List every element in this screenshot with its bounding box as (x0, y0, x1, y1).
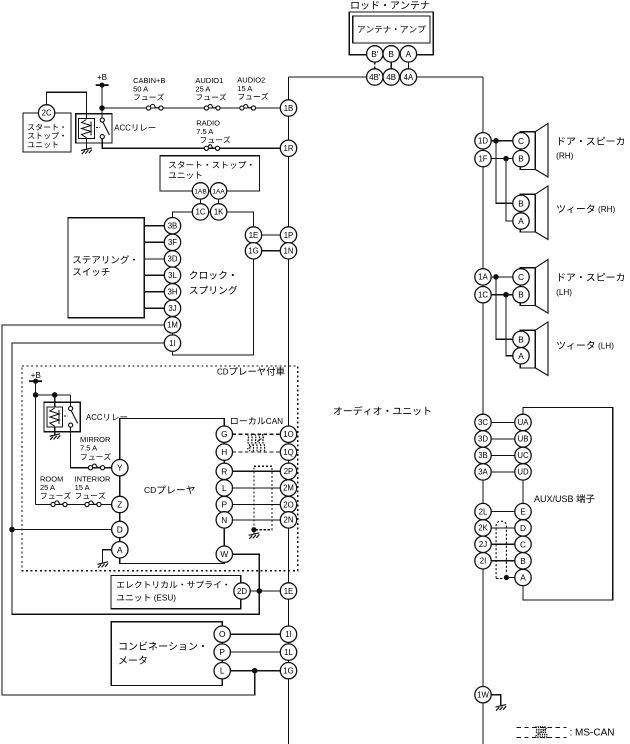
ground ACC relay coil (81, 148, 92, 154)
connector 1I audio unit (280, 626, 296, 642)
svg-text:25 A: 25 A (195, 85, 210, 94)
junction 1C branch (504, 293, 508, 297)
wire 1C to door speaker LH B (491, 294, 513, 296)
connector L combination meter (214, 663, 230, 679)
svg-text:4A: 4A (404, 73, 414, 82)
legend MS-CAN dashed lines (517, 727, 567, 729)
junction shield drain (252, 528, 256, 532)
terminal A tweeter RH (513, 213, 529, 229)
fuse ROOM 25A (51, 502, 55, 506)
wire R to 2P (233, 470, 281, 472)
svg-text:1AA: 1AA (212, 188, 225, 195)
connector 2D ESU (234, 583, 250, 599)
svg-text:3H: 3H (168, 288, 178, 297)
svg-text:CD: CD (217, 367, 229, 376)
terminal E AUX/USB (515, 503, 531, 519)
fuse MIRROR 7.5A (88, 466, 92, 470)
connector P CD player (216, 496, 232, 512)
terminal C door speaker RH (513, 133, 529, 149)
svg-text:Y: Y (117, 463, 123, 473)
wire ACC relay coil to ground (85, 139, 87, 149)
connector 2L audio unit (475, 503, 491, 519)
label antenna amp (358, 25, 426, 33)
svg-text:1AB: 1AB (194, 188, 207, 195)
svg-text:15 A: 15 A (75, 483, 90, 492)
start-stop unit box (left) (23, 113, 71, 152)
svg-text:2D: 2D (237, 587, 247, 596)
svg-text:P: P (222, 500, 228, 510)
connector 2J audio unit (475, 536, 491, 552)
wire antenna A to 4A (407, 62, 409, 69)
svg-text:1G: 1G (248, 247, 258, 256)
wire N to 2N (233, 519, 281, 521)
label combination meter (120, 642, 204, 651)
svg-text:1E: 1E (249, 231, 259, 240)
wire L to 1G (230, 670, 280, 672)
connector 1AA start-stop unit (210, 183, 226, 199)
wire D to left bus junction (12, 529, 112, 531)
terminal UD AUX/USB (515, 464, 531, 480)
svg-text:O: O (219, 629, 226, 639)
wire A to ground (103, 550, 112, 563)
speaker door speaker LH (520, 268, 535, 306)
fuse AUDIO2 15A (240, 106, 244, 110)
label door speaker RH (559, 137, 624, 145)
connector 1W audio unit (475, 687, 491, 703)
svg-text:1P: 1P (284, 231, 294, 240)
wire H to 1Q local CAN (dashed) (233, 451, 281, 453)
terminal UB AUX/USB (515, 431, 531, 447)
svg-text:1W: 1W (477, 691, 489, 700)
svg-text:UC: UC (517, 451, 529, 460)
connector 1E audio unit (280, 583, 296, 599)
svg-text:1Q: 1Q (283, 448, 293, 457)
svg-text:50 A: 50 A (133, 85, 148, 94)
shield dashed box AUX lines (496, 521, 506, 578)
svg-text:B: B (388, 49, 394, 59)
connector 1E clock spring (245, 227, 261, 243)
connector 1F audio unit (475, 150, 491, 166)
connector 3A audio unit (475, 464, 491, 480)
label start-stop unit (middle) (169, 161, 252, 169)
connector L CD player (216, 480, 232, 496)
wire room/interior fused line to Z (36, 504, 112, 506)
svg-text:1G: 1G (283, 667, 293, 676)
wire 1AA to 1K (218, 199, 220, 204)
wire ACC relay output to connector 1R (102, 139, 280, 148)
svg-text:(ESU): (ESU) (154, 594, 177, 603)
svg-text:A: A (518, 216, 524, 226)
svg-text:3C: 3C (478, 418, 488, 427)
wire audio-unit left harness line (288, 77, 290, 744)
wire steering switch to 3D (144, 258, 164, 260)
junction coil feed (53, 393, 57, 397)
svg-text:W: W (220, 549, 228, 559)
connector R CD player (216, 463, 232, 479)
connector 1B audio unit (280, 100, 296, 116)
terminal B tweeter LH (513, 331, 529, 347)
svg-text:1E: 1E (284, 587, 294, 596)
junction 1F branch (504, 156, 508, 160)
connector O combination meter (214, 626, 230, 642)
svg-text:1D: 1D (478, 137, 488, 146)
connector 1I clock spring (164, 335, 180, 351)
relay ACC relay (main) (76, 114, 112, 143)
wire 1A to door speaker LH C (491, 276, 513, 278)
label local CAN (231, 417, 265, 424)
wire 1W to ground (491, 695, 501, 706)
fuse AUDIO1 25A (204, 106, 208, 110)
svg-text:D: D (117, 525, 123, 535)
label clock spring (190, 271, 234, 280)
svg-text:2M: 2M (283, 484, 294, 493)
terminal B antenna amp (383, 46, 399, 62)
connector G CD player (216, 426, 232, 442)
AUX/USB terminal box (523, 407, 613, 600)
svg-text:B: B (520, 556, 526, 566)
speaker tweeter LH (520, 330, 535, 368)
svg-text:B: B (518, 334, 524, 344)
speaker tweeter RH (520, 194, 535, 232)
connector 1A audio unit (475, 269, 491, 285)
label electrical supply unit (ESU) (117, 581, 227, 589)
connector 3F clock spring (164, 234, 180, 250)
terminal UC AUX/USB (515, 447, 531, 463)
svg-text:1A: 1A (478, 273, 488, 282)
connector 3J clock spring (164, 300, 180, 316)
wire +B down to ACC relay contact (101, 85, 103, 118)
svg-text:AUX/USB: AUX/USB (534, 494, 574, 504)
terminal B door speaker LH (513, 287, 529, 303)
svg-text:1O: 1O (283, 430, 293, 439)
label start-stop unit (left) (28, 124, 64, 131)
connector 2C start-stop unit (38, 105, 54, 121)
antenna amp inner box (353, 16, 430, 43)
wire 1F branch to tweeter RH A (506, 159, 513, 221)
svg-text:3D: 3D (478, 435, 488, 444)
ground shield drain (249, 533, 260, 539)
svg-text:D: D (520, 523, 526, 533)
svg-text:2N: 2N (284, 516, 294, 525)
svg-text:C: C (520, 539, 526, 549)
connector 1C clock spring (192, 204, 208, 220)
wire 2K to D (491, 527, 515, 529)
wire P to 1L (230, 651, 280, 653)
wire 1E to 1P (262, 234, 281, 236)
svg-text:ACC: ACC (114, 124, 131, 133)
wire shield drain to ground (253, 530, 255, 534)
wire steering switch to 3L (144, 274, 164, 276)
svg-text:B': B' (371, 49, 379, 59)
connector 1R audio unit (280, 140, 296, 156)
svg-text:A: A (520, 573, 526, 583)
svg-text:1R: 1R (284, 144, 294, 153)
wire 3A to UD (491, 471, 515, 473)
svg-text:(LH): (LH) (598, 341, 614, 350)
wire L to 2M (233, 487, 281, 489)
svg-text:15 A: 15 A (237, 84, 252, 93)
terminal A tweeter LH (513, 348, 529, 364)
wire 1D to door speaker RH C (491, 140, 513, 142)
svg-text:L: L (220, 666, 225, 676)
connector 1AB start-stop unit (192, 183, 208, 199)
svg-text:3F: 3F (168, 238, 177, 247)
svg-text:E: E (520, 507, 526, 517)
svg-text:2O: 2O (283, 500, 293, 509)
svg-text:3J: 3J (168, 304, 176, 313)
clock spring box (173, 212, 254, 355)
junction shield drain AUX (504, 576, 508, 580)
connector 1K clock spring (210, 204, 226, 220)
fuse CABIN+B 50A (147, 106, 151, 110)
terminal B tweeter RH (513, 195, 529, 211)
wire shield drain to terminal A (506, 577, 514, 579)
svg-text:C: C (518, 272, 524, 282)
fuse RADIO 7.5A (204, 146, 208, 150)
wire 1G to 1N (262, 250, 281, 252)
ground 1W (496, 705, 507, 711)
wire 1C branch to tweeter LH A (506, 295, 513, 356)
svg-text:1B: 1B (284, 104, 294, 113)
svg-text:A: A (518, 351, 524, 361)
wire P to 2O (233, 504, 281, 506)
label rod antenna (351, 1, 429, 9)
svg-text:UB: UB (518, 435, 529, 444)
junction +B branch to ACC relay 2 (33, 393, 37, 397)
ground CD player A (97, 562, 108, 568)
connector 1D audio unit (475, 133, 491, 149)
wire antenna B' to 4B' (dashed) (374, 62, 376, 69)
svg-text:CD: CD (144, 485, 156, 495)
terminal B AUX/USB (515, 553, 531, 569)
connector 3D audio unit (475, 431, 491, 447)
relay ACC relay 2 (CD player) (44, 402, 80, 432)
wire audio-unit right harness line (482, 77, 484, 744)
junction W net on 2D-1E wire (257, 589, 261, 593)
connector 1P audio unit (280, 227, 296, 243)
wire ACC relay 2 output via MIRROR fuse to Y (71, 427, 112, 467)
svg-text:R: R (221, 466, 227, 476)
label audio unit (334, 406, 431, 415)
CD player box (120, 418, 225, 563)
twisted pair local CAN (247, 434, 265, 452)
rod antenna outer box (349, 12, 433, 55)
legend twisted pair symbol (535, 726, 547, 738)
connector 3H clock spring (164, 284, 180, 300)
svg-text:+B: +B (97, 73, 107, 82)
svg-text:N: N (221, 515, 227, 525)
connector 1G audio unit (280, 663, 296, 679)
svg-text:2I: 2I (480, 557, 487, 566)
wire 1D branch to tweeter RH B (496, 141, 513, 204)
wire 2D to 1E (250, 590, 280, 592)
svg-text:3A: 3A (478, 468, 488, 477)
svg-text:P: P (219, 647, 225, 657)
wire steering switch to 3J (144, 307, 164, 309)
junction +B feeder (100, 106, 104, 110)
terminal B' antenna amp (367, 46, 383, 62)
svg-text:G: G (221, 429, 227, 439)
junction 1A branch (494, 275, 498, 279)
svg-text:Z: Z (117, 500, 122, 510)
terminal C door speaker LH (513, 269, 529, 285)
connector Y CD player (112, 460, 128, 476)
connector 3D clock spring (164, 251, 180, 267)
label tweeter RH (557, 204, 594, 213)
wire +B down to room fuse line (35, 381, 37, 504)
svg-text:C: C (518, 136, 524, 146)
svg-text:H: H (221, 447, 227, 457)
ground ACC relay 2 coil (50, 434, 61, 440)
svg-text:L: L (222, 483, 227, 493)
svg-text:(LH): (LH) (556, 288, 572, 297)
wire ACC relay 2 coil to ground (54, 427, 56, 435)
svg-text:7.5 A: 7.5 A (196, 127, 213, 136)
svg-text:3D: 3D (168, 255, 178, 264)
connector 2P audio unit (280, 463, 296, 479)
connector N CD player (216, 512, 232, 528)
connector 4B' (367, 69, 383, 85)
svg-text:1F: 1F (478, 154, 487, 163)
wire steering switch to 3H (144, 291, 164, 293)
wire fused feed line to connector 1B (102, 107, 280, 109)
combination meter box (111, 622, 222, 686)
speaker door speaker RH (520, 132, 535, 170)
wire switch feed down (70, 395, 72, 407)
svg-text:1I: 1I (285, 630, 292, 639)
wire steering switch to 3B (144, 225, 164, 227)
connector 2O audio unit (280, 496, 296, 512)
svg-text:4B': 4B' (369, 73, 381, 82)
connector 1L audio unit (280, 644, 296, 660)
connector 3B audio unit (475, 447, 491, 463)
connector W CD player (216, 546, 232, 562)
wire W to ESU/1E net (233, 554, 260, 591)
connector 4A (400, 69, 416, 85)
svg-text:B: B (518, 154, 524, 164)
label door speaker LH (559, 273, 624, 281)
terminal C AUX/USB (515, 536, 531, 552)
connector 1N audio unit (280, 243, 296, 259)
wire start-stop unit 2C to ACC relay coil (47, 92, 87, 118)
fuse INTERIOR 15A (85, 502, 89, 506)
start-stop unit box (middle) (160, 156, 259, 191)
wire 1M to left bus down to combination meter net (2, 325, 255, 695)
terminal D AUX/USB (515, 520, 531, 536)
svg-text:1C: 1C (478, 291, 488, 300)
svg-text:ACC: ACC (86, 413, 103, 422)
wire 3C to UA (491, 421, 515, 423)
svg-text:2C: 2C (42, 109, 52, 118)
terminal A AUX/USB (515, 569, 531, 585)
svg-text:1C: 1C (196, 208, 206, 217)
shield dashed box around speaker lines (254, 466, 272, 530)
wire 2L to E (491, 511, 515, 513)
svg-text:B: B (518, 198, 524, 208)
wire steering switch to 3F (144, 241, 164, 243)
svg-text:3L: 3L (168, 271, 177, 280)
connector A CD player (112, 542, 128, 558)
svg-text:25 A: 25 A (40, 483, 55, 492)
connector D CD player (112, 521, 128, 537)
wire branch to ACC relay 2 (36, 394, 71, 396)
svg-text:7.5 A: 7.5 A (80, 444, 97, 453)
svg-text:A: A (117, 545, 123, 555)
connector 2K audio unit (475, 520, 491, 536)
svg-text:1M: 1M (167, 321, 178, 330)
junction 1D branch (494, 139, 498, 143)
svg-text:1K: 1K (214, 208, 224, 217)
svg-text:A: A (406, 49, 412, 59)
connector 3B clock spring (164, 218, 180, 234)
connector P combination meter (214, 644, 230, 660)
terminal UA AUX/USB (515, 414, 531, 430)
svg-text:2L: 2L (479, 507, 488, 516)
wire antenna B to 4B (390, 62, 392, 69)
wire 3D to UB (491, 438, 515, 440)
label tweeter LH (557, 341, 594, 350)
wire 3B to UC (491, 454, 515, 456)
svg-text:3B: 3B (478, 451, 488, 460)
wire 1F to door speaker RH B (491, 158, 513, 160)
wire 1I to left bus down to ESU net (12, 343, 259, 614)
svg-text:CAN: CAN (266, 417, 283, 426)
wire 1A branch to tweeter LH B (496, 277, 513, 339)
terminal A antenna amp (400, 46, 416, 62)
svg-text:2J: 2J (479, 540, 487, 549)
svg-text:(RH): (RH) (556, 152, 574, 161)
wire 2I to B (491, 560, 515, 562)
label steering switch (73, 255, 135, 264)
connector H CD player (216, 444, 232, 460)
junction 1M net on L-1G wire (253, 669, 257, 673)
svg-text:2K: 2K (478, 524, 488, 533)
svg-text:4B: 4B (386, 73, 396, 82)
wire G to 1O local CAN (dashed) (233, 433, 281, 435)
svg-text:1N: 1N (284, 247, 294, 256)
svg-text:B: B (518, 290, 524, 300)
connector 2N audio unit (280, 512, 296, 528)
connector 2M audio unit (280, 480, 296, 496)
connector Z CD player (112, 496, 128, 512)
wire coil feed down (54, 395, 56, 407)
steering switch box (68, 218, 144, 318)
dotted enclosure: with CD player (22, 366, 298, 571)
wire 1AB to 1C (200, 199, 202, 204)
svg-text:(RH): (RH) (598, 205, 616, 214)
svg-text:UA: UA (518, 418, 530, 427)
connector 3C audio unit (475, 414, 491, 430)
terminal B door speaker RH (513, 150, 529, 166)
connector 1M clock spring (164, 317, 180, 333)
svg-text:UD: UD (517, 468, 529, 477)
svg-text:: MS-CAN: : MS-CAN (570, 727, 615, 738)
connector 4B (383, 69, 399, 85)
svg-text:2P: 2P (284, 467, 294, 476)
junction D wire on 1I bus (10, 527, 14, 531)
wire bus top: 4B'/4A antenna feed to audio unit (289, 76, 367, 78)
connector 1Q audio unit (280, 444, 296, 460)
svg-text:1L: 1L (284, 648, 293, 657)
connector 1C audio unit (475, 287, 491, 303)
connector 1G clock spring (245, 243, 261, 259)
ESU box (111, 576, 241, 609)
wire 2J to C (491, 543, 515, 545)
svg-text:1I: 1I (169, 339, 176, 348)
connector 3L clock spring (164, 267, 180, 283)
connector 2I audio unit (475, 553, 491, 569)
wire O to 1I (230, 633, 280, 635)
